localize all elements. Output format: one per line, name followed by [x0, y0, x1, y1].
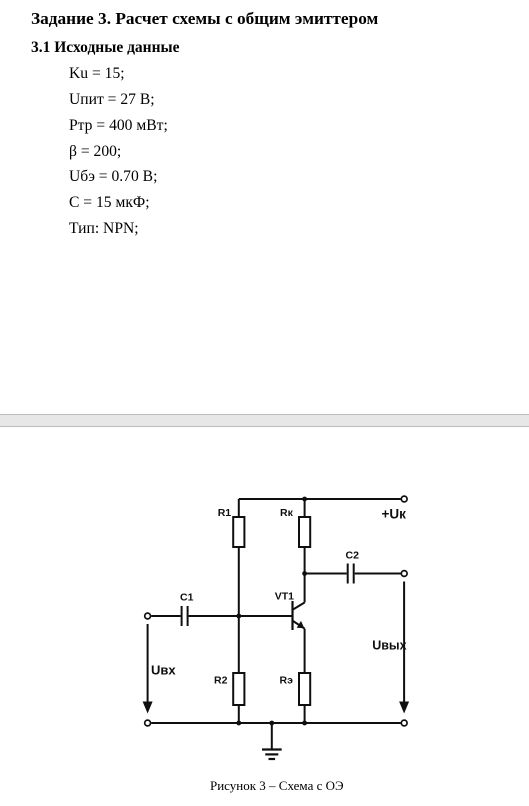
- resistor Re: [299, 673, 310, 705]
- node top rail / Rk junction: [302, 497, 307, 502]
- wire Rk top: [304, 499, 306, 517]
- capacitor C1: [181, 606, 183, 626]
- arrow Uvx: [147, 624, 149, 704]
- wire Rk bottom to collector node: [304, 547, 306, 574]
- transistor Q1 emitter arrow: [297, 621, 305, 628]
- node bottom Re: [302, 721, 307, 726]
- svg-text:R2: R2: [214, 675, 228, 687]
- terminal bottom left: [145, 720, 151, 726]
- node bottom R2: [236, 721, 241, 726]
- wire base node to R2: [238, 616, 240, 673]
- arrow Uvyx: [403, 582, 405, 704]
- node collector: [302, 571, 307, 576]
- wire bottom rail: [151, 722, 400, 724]
- node bottom ground: [269, 721, 274, 726]
- svg-text:Rк: Rк: [280, 507, 294, 519]
- svg-text:C1: C1: [180, 591, 194, 603]
- svg-text:Uвых: Uвых: [372, 639, 406, 653]
- transistor Q1 emitter lead: [293, 621, 305, 629]
- wire emitter drop: [304, 629, 306, 673]
- wire R2 bottom: [238, 705, 240, 723]
- terminal +Uk: [401, 496, 407, 502]
- transistor Q1 collector lead: [293, 603, 305, 610]
- resistor R1: [233, 517, 244, 547]
- wire C2 from collector: [305, 573, 347, 575]
- wire Re bottom: [304, 705, 306, 723]
- svg-text:Rэ: Rэ: [280, 675, 294, 687]
- wire R1 top: [238, 499, 240, 517]
- terminal output: [401, 571, 407, 577]
- ground: [271, 723, 273, 749]
- wire collector drop: [304, 574, 306, 603]
- wire C1 to base: [189, 615, 293, 617]
- terminal bottom right: [401, 720, 407, 726]
- svg-text:R1: R1: [218, 507, 232, 519]
- wire R1 bottom to base node: [238, 547, 240, 616]
- svg-text:VT1: VT1: [275, 590, 294, 602]
- node base junction: [236, 614, 241, 619]
- wire C2 to output: [355, 573, 401, 575]
- svg-text:Uвх: Uвх: [151, 662, 176, 677]
- capacitor C2: [347, 564, 349, 584]
- resistor Rk: [299, 517, 310, 547]
- wire input to C1: [151, 615, 180, 617]
- svg-text:+Uк: +Uк: [382, 506, 407, 521]
- terminal input: [145, 613, 151, 619]
- transistor Q1 base bar: [291, 601, 293, 630]
- resistor R2: [233, 673, 244, 705]
- svg-text:C2: C2: [346, 550, 360, 562]
- wire top rail: [239, 498, 401, 500]
